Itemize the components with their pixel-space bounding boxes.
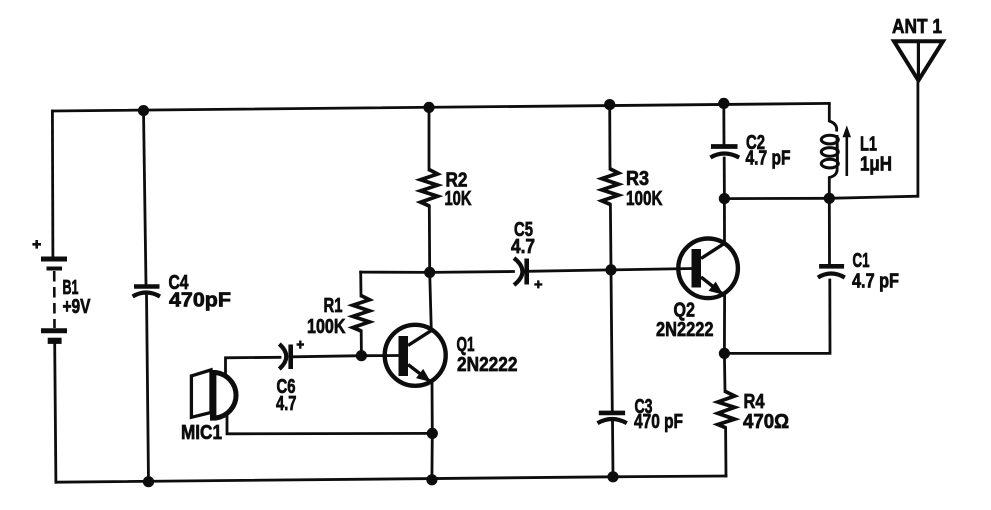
wire Q2 emitter down — [723, 296, 726, 353]
capacitor C6 — [279, 341, 304, 370]
svg-text:Q1: Q1 — [457, 334, 475, 356]
node L1 bottom — [824, 193, 835, 204]
capacitor C5 — [514, 258, 542, 288]
node bottom rail Q1 — [426, 474, 437, 485]
svg-text:4.7: 4.7 — [511, 236, 535, 258]
antenna ANT1 — [894, 41, 943, 80]
svg-text:ANT 1: ANT 1 — [892, 16, 942, 38]
svg-text:L1: L1 — [860, 134, 877, 156]
node Q1 base — [356, 350, 367, 361]
resistor R3 — [602, 169, 619, 205]
wire Q1 base — [361, 354, 399, 357]
wire C4 branch top — [144, 111, 147, 286]
svg-text:10K: 10K — [445, 188, 472, 210]
svg-text:100K: 100K — [307, 316, 346, 338]
svg-text:2N2222: 2N2222 — [457, 354, 518, 376]
resistor R1 — [353, 296, 370, 332]
svg-text:1μH: 1μH — [860, 154, 892, 176]
node top C4 — [138, 105, 149, 116]
svg-text:R3: R3 — [626, 168, 649, 190]
wire C6 to base node — [294, 356, 362, 357]
svg-text:C1: C1 — [853, 250, 870, 272]
wire L1 bottom to antenna — [829, 81, 918, 199]
svg-text:+9V: +9V — [63, 296, 92, 318]
capacitor C4 — [133, 287, 160, 297]
wire C1 top — [828, 198, 831, 264]
svg-text:470Ω: 470Ω — [743, 411, 789, 433]
inductor L1 — [821, 103, 838, 198]
capacitor C3 — [598, 413, 627, 423]
wire middle base line — [361, 269, 692, 273]
wire R3 branch — [610, 105, 611, 270]
svg-text:470 pF: 470 pF — [634, 411, 683, 433]
svg-text:470pF: 470pF — [169, 290, 231, 312]
node bottom rail C3 — [607, 471, 618, 482]
wire bottom rail — [56, 476, 726, 482]
wire R2 branch — [428, 107, 432, 272]
wire emitter to C1 bottom — [724, 280, 830, 353]
microphone MIC1 — [191, 370, 236, 421]
wire C3 branch — [611, 270, 613, 477]
node Q2 emitter — [719, 348, 730, 359]
transistor Q1 — [385, 325, 446, 386]
svg-text:4.7: 4.7 — [276, 393, 297, 415]
wire Q1 collector — [430, 272, 432, 330]
node C2 bottom — [719, 193, 730, 204]
wire C2 branch bottom — [723, 158, 726, 199]
resistor R2 — [421, 170, 438, 207]
node Q1 emitter mic — [427, 428, 438, 439]
wire C2 node to L1 node — [724, 197, 829, 200]
wire C2 branch top — [722, 103, 725, 144]
node top R3 — [604, 99, 615, 110]
svg-text:R4: R4 — [744, 391, 766, 413]
wire left branch battery top — [51, 111, 54, 257]
wire mic bottom — [227, 417, 432, 434]
wire C4 branch bottom — [147, 294, 149, 482]
node dots — [138, 98, 835, 488]
svg-text:4.7 pF: 4.7 pF — [746, 148, 791, 170]
capacitor C2 — [710, 147, 739, 158]
wire Q1 emitter down — [430, 383, 433, 480]
capacitor C1 — [818, 266, 845, 277]
node top C2 — [718, 98, 729, 109]
wire battery bottom — [55, 344, 56, 482]
node bottom rail C4 — [143, 476, 154, 487]
svg-text:4.7 pF: 4.7 pF — [852, 271, 899, 293]
battery B1 — [32, 240, 67, 341]
node R3 bottom — [605, 264, 616, 275]
L1 arrow — [843, 125, 852, 176]
node R2 bottom — [424, 267, 435, 278]
resistor R4 — [718, 391, 735, 427]
wire Q2 collector — [723, 199, 726, 243]
wire top rail — [52, 103, 829, 111]
transistor Q2 — [678, 238, 738, 298]
wire mic top to C6 — [226, 357, 281, 374]
wire R1 branch — [359, 272, 362, 356]
svg-text:2N2222: 2N2222 — [656, 319, 714, 341]
wire R4 branch — [724, 353, 726, 476]
svg-text:MIC1: MIC1 — [181, 422, 222, 444]
svg-text:100K: 100K — [626, 188, 663, 210]
svg-text:R1: R1 — [324, 295, 343, 317]
node top R2 — [423, 102, 434, 113]
